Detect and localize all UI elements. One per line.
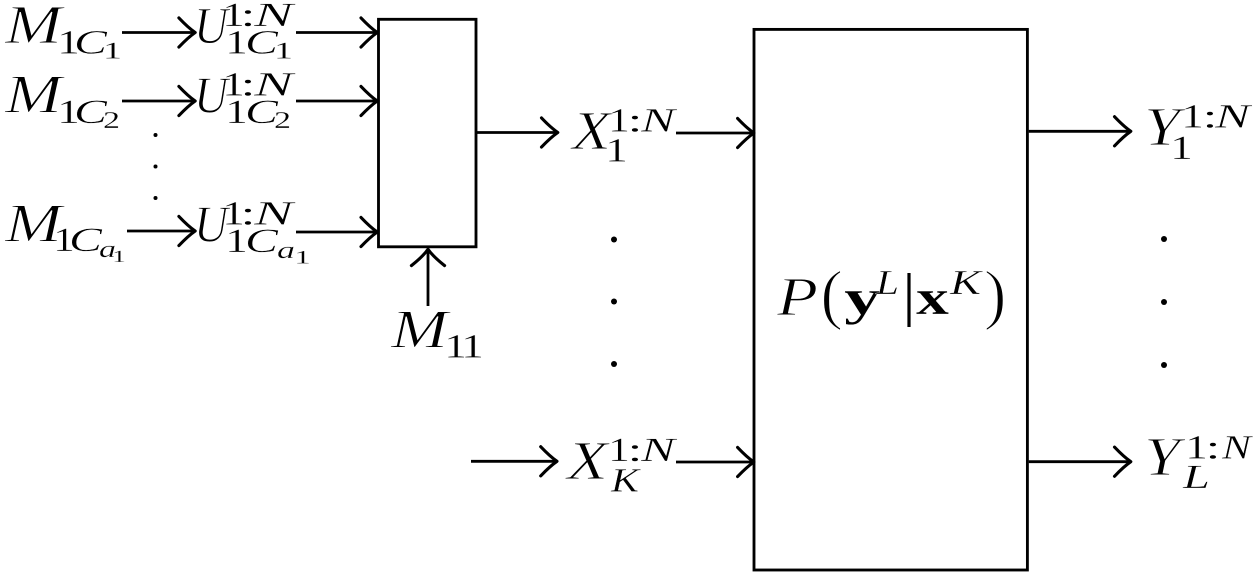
arrowhead into encoder box row 2 xyxy=(361,86,377,115)
svg-text:M11: M11 xyxy=(390,299,484,366)
wire M_11 up into encoder box xyxy=(427,251,430,307)
arrowhead into encoder box row 3 xyxy=(361,217,377,246)
arrowhead at X_K xyxy=(541,447,557,476)
arrowhead up into encoder box bottom xyxy=(411,249,444,265)
vertical dots left column xyxy=(154,133,158,200)
arrowhead into channel box top input xyxy=(738,118,754,147)
conditioning bar in P(y^L|x^K) xyxy=(907,273,910,327)
wire X_1 to channel box xyxy=(676,132,753,135)
arrowhead into encoder box row 1 xyxy=(361,18,377,47)
svg-text:Y1:NL: Y1:NL xyxy=(1144,426,1253,496)
wire M_1C2 to U_1C2 xyxy=(122,100,194,103)
svg-text:P(yLxK): P(yLxK) xyxy=(776,258,1007,332)
arrowhead into channel box bottom input xyxy=(738,447,754,476)
wire U_1C2 to encoder box xyxy=(296,100,376,103)
vertical dots right column xyxy=(1161,236,1167,368)
svg-text:M1C1: M1C1 xyxy=(4,0,122,65)
arrowhead at U_1C2 xyxy=(179,86,195,115)
arrowhead at Y_L xyxy=(1115,447,1131,476)
wire encoder box to X_1 xyxy=(476,131,557,134)
arrowhead at U_1C1 xyxy=(179,18,195,47)
wire channel box to Y_L xyxy=(1029,460,1130,463)
svg-text:X1:NK: X1:NK xyxy=(565,430,679,500)
arrowhead at U_1Ca1 xyxy=(179,216,195,245)
wire channel box to Y_1 xyxy=(1029,130,1130,133)
svg-text:U1:N1C1: U1:N1C1 xyxy=(194,0,297,65)
wire M_1C1 to U_1C1 xyxy=(122,31,194,34)
wire X_K to channel box xyxy=(676,461,753,464)
wire M_1Ca1 to U_1Ca1 xyxy=(127,230,194,233)
svg-text:Y1:N1: Y1:N1 xyxy=(1144,96,1253,167)
channel box P(y^L|x^K) (large rectangle) xyxy=(754,29,1027,570)
encoder box (small rectangle) xyxy=(379,19,477,247)
wire U_1Ca1 to encoder box xyxy=(296,231,376,234)
wire U_1C1 to encoder box xyxy=(296,31,376,34)
arrowhead at Y_1 xyxy=(1115,117,1131,146)
wire into X_K xyxy=(471,460,556,463)
svg-text:U1:N1C2: U1:N1C2 xyxy=(194,67,297,135)
arrowhead at X_1 xyxy=(542,118,558,147)
svg-text:U1:N1Ca1: U1:N1Ca1 xyxy=(194,196,311,269)
vertical dots middle column xyxy=(611,237,617,368)
svg-text:M1C2: M1C2 xyxy=(4,64,120,135)
svg-text:M1Ca1: M1Ca1 xyxy=(4,193,126,267)
svg-text:X1:N1: X1:N1 xyxy=(570,100,679,170)
